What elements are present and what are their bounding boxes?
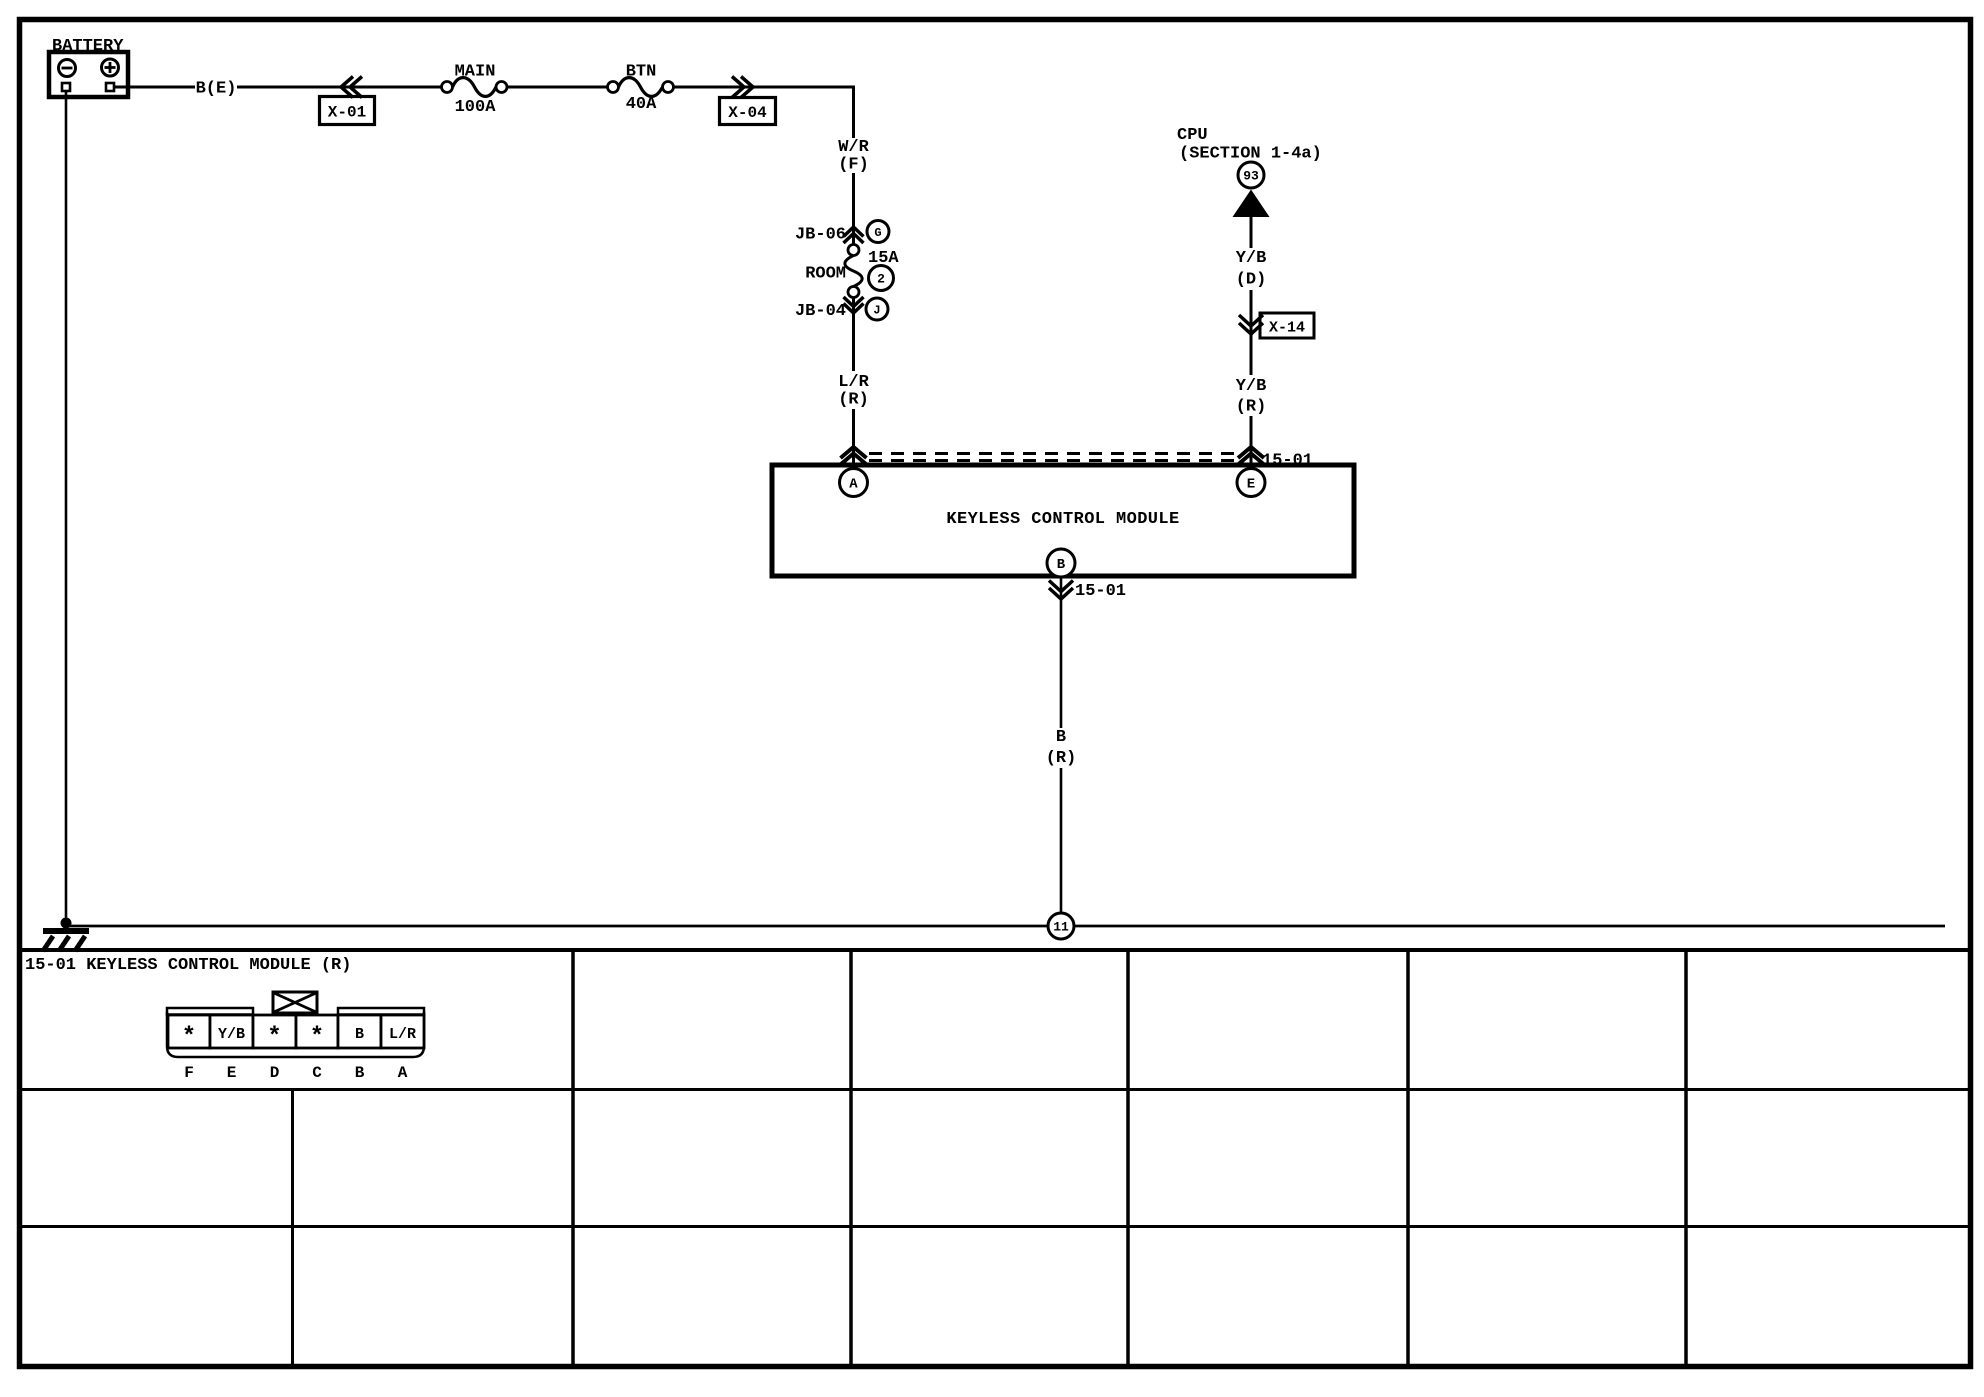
wire L/R to module pin A	[852, 409, 855, 465]
svg-text:BTN: BTN	[626, 63, 657, 82]
connector X-04	[720, 77, 776, 125]
ground joint 11	[1048, 913, 1074, 939]
svg-text:JB-06: JB-06	[795, 226, 846, 245]
svg-text:C: C	[312, 1064, 322, 1082]
svg-text:X-14: X-14	[1269, 320, 1305, 337]
svg-text:W/R: W/R	[838, 138, 869, 157]
svg-text:X-04: X-04	[728, 104, 767, 122]
svg-text:*: *	[267, 1024, 281, 1051]
module pin A	[840, 469, 868, 497]
wire W/R to JB-06	[852, 173, 855, 245]
svg-text:*: *	[310, 1024, 324, 1051]
module pin E	[1237, 469, 1265, 497]
connector pin letters	[184, 1064, 408, 1082]
wire label Y/B (D)	[1236, 249, 1267, 290]
wire label W/R (F)	[838, 138, 869, 175]
wire Y/B(R) to module pin E	[1250, 416, 1253, 465]
svg-text:L/R: L/R	[838, 373, 869, 392]
connector 15-01 at pin A	[841, 447, 867, 465]
connector pin cells	[168, 1015, 424, 1051]
wire JB-04 to L/R	[852, 298, 855, 372]
wire label B (R)	[1046, 728, 1077, 768]
connector 15-01 housing	[167, 1008, 424, 1057]
battery	[49, 37, 128, 97]
connector 15-01 at pin B	[1049, 581, 1126, 602]
wire triangle to Y/B(D)	[1250, 216, 1253, 248]
svg-text:93: 93	[1243, 169, 1259, 184]
svg-text:J: J	[873, 303, 880, 317]
svg-text:X-01: X-01	[328, 104, 366, 122]
svg-text:(F): (F)	[838, 156, 869, 175]
svg-text:100A: 100A	[455, 98, 497, 117]
wire label Y/B (R)	[1236, 377, 1267, 417]
svg-text:*: *	[182, 1024, 196, 1051]
junction JB-06 pin G	[795, 221, 889, 245]
svg-text:2: 2	[877, 272, 885, 287]
svg-text:B: B	[1056, 728, 1066, 747]
svg-text:KEYLESS CONTROL MODULE: KEYLESS CONTROL MODULE	[946, 510, 1179, 529]
svg-text:BATTERY: BATTERY	[52, 37, 124, 56]
svg-text:Y/B: Y/B	[218, 1026, 245, 1043]
connector 15-01 title	[25, 956, 351, 975]
wire battery+ to B(E)	[114, 86, 195, 89]
svg-text:40A: 40A	[626, 95, 657, 114]
wire pin B down	[1060, 577, 1063, 728]
svg-text:(D): (D)	[1236, 271, 1267, 290]
wire label L/R (R)	[838, 373, 869, 410]
svg-text:F: F	[184, 1064, 194, 1082]
svg-text:B: B	[1057, 557, 1066, 573]
svg-text:B(E): B(E)	[196, 80, 237, 99]
svg-text:B: B	[355, 1026, 364, 1043]
wire label B(E)	[196, 80, 237, 99]
svg-text:11: 11	[1053, 920, 1069, 935]
ground bus wire	[66, 925, 1945, 928]
wire fuse BTN to corner	[674, 86, 856, 89]
svg-text:B: B	[355, 1064, 365, 1082]
svg-text:A: A	[398, 1064, 408, 1082]
wire Y/B(D) to X-14	[1250, 290, 1253, 375]
fuse MAIN 100A	[442, 63, 508, 118]
junction node	[61, 918, 72, 929]
keyless control module box	[772, 465, 1354, 576]
svg-text:E: E	[227, 1064, 237, 1082]
fuse BTN 40A	[608, 63, 674, 115]
CPU label	[1177, 126, 1322, 164]
connector X-14	[1239, 313, 1314, 338]
connector X-01	[320, 77, 375, 125]
ground symbol	[43, 931, 89, 951]
junction JB-04 pin J	[795, 297, 888, 321]
wire fuse MAIN to fuse BTN	[507, 86, 608, 89]
svg-text:Y/B: Y/B	[1236, 377, 1267, 396]
svg-text:(R): (R)	[1046, 749, 1077, 768]
wire battery- down	[65, 91, 68, 920]
svg-text:A: A	[849, 477, 858, 493]
svg-text:ROOM: ROOM	[805, 265, 846, 284]
connector 15-01 dashed line	[869, 454, 1238, 461]
wire B(R) to ground joint 11	[1060, 768, 1063, 913]
svg-text:Y/B: Y/B	[1236, 249, 1267, 268]
svg-text:L/R: L/R	[389, 1026, 416, 1043]
svg-text:G: G	[874, 226, 881, 240]
svg-text:(R): (R)	[838, 391, 869, 410]
svg-text:CPU: CPU	[1177, 126, 1208, 145]
svg-text:15-01: 15-01	[1075, 582, 1126, 601]
svg-text:E: E	[1247, 477, 1255, 493]
svg-text:JB-04: JB-04	[795, 302, 846, 321]
wire corner down W/R	[852, 86, 855, 139]
svg-text:MAIN: MAIN	[455, 63, 496, 82]
connector keyway	[273, 992, 317, 1013]
svg-text:15-01 KEYLESS CONTROL MODULE (: 15-01 KEYLESS CONTROL MODULE (R)	[25, 956, 351, 975]
off-page connector 93 to CPU	[1233, 162, 1270, 217]
connector 15-01 at pin E	[1238, 447, 1313, 471]
svg-text:D: D	[270, 1064, 280, 1082]
fuse ROOM 15A pin 2	[805, 245, 899, 298]
module pin B	[1047, 549, 1075, 577]
connector table grid	[19, 950, 1971, 1366]
svg-text:(R): (R)	[1236, 398, 1267, 417]
wire B(E) to fuse MAIN	[237, 86, 442, 89]
